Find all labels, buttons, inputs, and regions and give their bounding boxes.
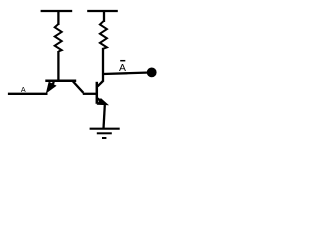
svg-text:A: A — [21, 85, 26, 94]
svg-text:A: A — [119, 63, 126, 74]
